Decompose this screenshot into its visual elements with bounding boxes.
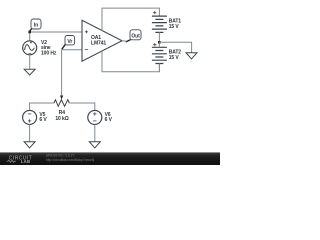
node flag In	[29, 19, 41, 32]
label V6 6 V	[105, 112, 113, 123]
label BAT1 15 V	[169, 19, 182, 30]
voltage source V2	[23, 41, 37, 55]
voltage source V6	[88, 110, 102, 124]
wire: V6 bottom to ground	[94, 124, 96, 141]
svg-text:LM741: LM741	[91, 41, 106, 47]
wire: op-amp V+ pin up and right to BAT1	[102, 8, 159, 31]
svg-text:15 V: 15 V	[169, 55, 180, 61]
wire: battery midpoint to ground	[159, 42, 191, 52]
wire: R4 right lead to V6	[69, 103, 95, 110]
footer text line 2	[46, 158, 94, 162]
wire: In node to op-amp + input	[30, 31, 82, 33]
node junction between batteries	[158, 41, 161, 44]
wire: R4 left lead to V5	[30, 103, 54, 110]
node flag Out	[122, 30, 141, 42]
svg-text:Vr: Vr	[67, 39, 72, 45]
wire: In node down to V2 top	[29, 32, 31, 41]
potentiometer R4	[54, 96, 69, 107]
CircuitLab logo	[7, 156, 33, 164]
node In junction dot	[28, 31, 31, 34]
svg-text:10 kΩ: 10 kΩ	[55, 116, 68, 122]
svg-text:6 V: 6 V	[39, 117, 47, 123]
ground (V5)	[24, 142, 35, 148]
node flag Vr	[62, 36, 75, 50]
label V5 6 V	[39, 112, 47, 123]
label R4 10 kOhm	[55, 110, 68, 122]
footer text line 1	[46, 154, 74, 158]
svg-text:In: In	[34, 23, 38, 29]
svg-text:LAB: LAB	[21, 159, 31, 164]
battery BAT1	[152, 11, 167, 42]
op-amp OA1 LM741	[82, 20, 122, 61]
wire: Vr corner down to R4 wiper	[61, 50, 63, 96]
wire: V5 bottom to ground	[29, 124, 31, 141]
wire: Vr corner to op-amp - input	[62, 49, 82, 51]
svg-text:Out: Out	[131, 33, 140, 39]
ground (V2)	[24, 69, 35, 75]
battery BAT2	[152, 42, 167, 72]
wire: V2 bottom to ground	[29, 55, 31, 69]
svg-text:15 V: 15 V	[169, 24, 180, 30]
label V2 sine 100 Hz	[41, 40, 57, 56]
footer bar	[0, 152, 220, 165]
ground (battery midpoint)	[186, 53, 197, 59]
svg-text:100 Hz: 100 Hz	[41, 50, 57, 56]
wire: op-amp V- pin down and right to BAT2	[102, 51, 159, 72]
svg-text:6 V: 6 V	[105, 117, 113, 123]
voltage source V5	[23, 110, 37, 124]
svg-text:http://circuitlab.com/56zkp7nn: http://circuitlab.com/56zkp7nnue5j	[46, 158, 94, 162]
label BAT2 15 V	[169, 50, 182, 61]
ground (V6)	[89, 142, 100, 148]
